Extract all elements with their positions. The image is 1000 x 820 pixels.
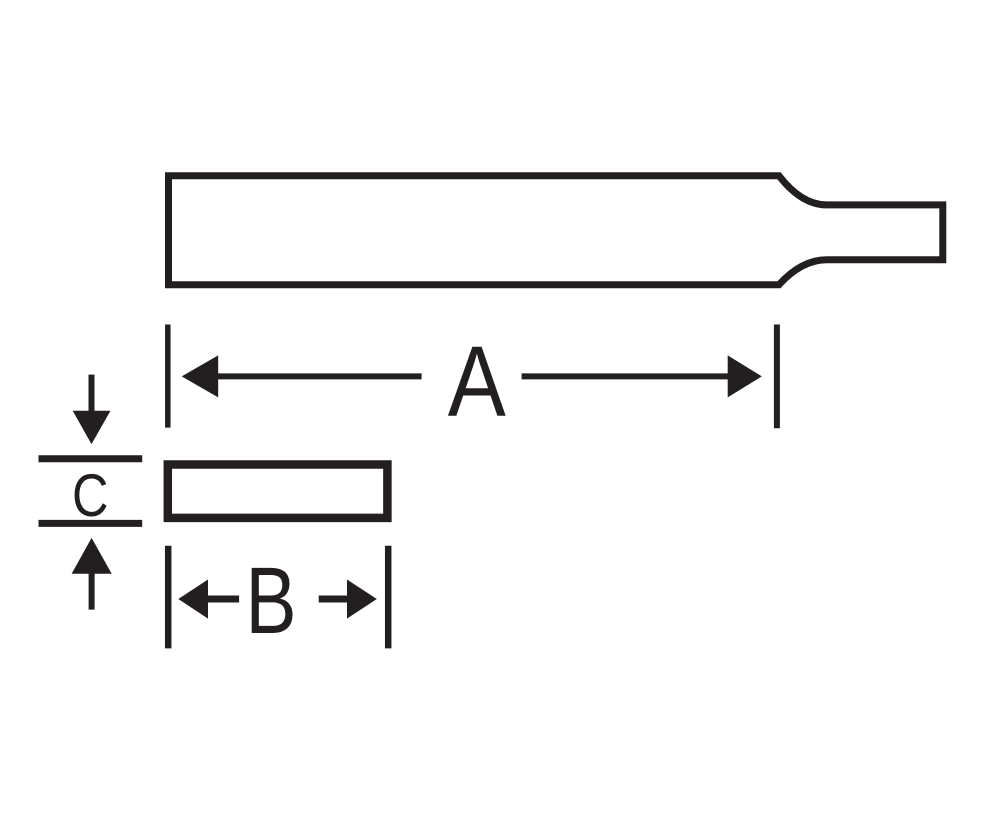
svg-text:C: C xyxy=(72,462,108,529)
dimension B right shaft xyxy=(319,596,350,603)
dimension A left shaft xyxy=(214,373,422,379)
dimension C down arrow shaft xyxy=(89,375,95,415)
dimension B left shaft xyxy=(204,596,239,603)
dimension B left extension line xyxy=(165,546,172,649)
dimension B right extension line xyxy=(385,546,392,649)
dimension B left arrowhead xyxy=(178,580,208,619)
dimension A right arrowhead xyxy=(728,355,762,397)
dimension C up arrowhead xyxy=(72,538,112,574)
svg-text:A: A xyxy=(448,325,507,437)
dimension A left extension line xyxy=(165,325,171,428)
file body outline (side profile with tang) xyxy=(169,176,943,285)
cross-section rectangle xyxy=(168,465,388,518)
svg-text:B: B xyxy=(245,548,296,653)
dimension B right arrowhead xyxy=(347,580,377,619)
dimension A right extension line xyxy=(774,325,780,429)
dimension C bottom line xyxy=(39,520,143,527)
dimension C down arrowhead xyxy=(73,411,111,444)
dimension A right shaft xyxy=(522,373,731,379)
dimension C up arrow shaft xyxy=(89,570,95,610)
dimension A left arrowhead xyxy=(182,355,219,397)
dimension C top line xyxy=(39,455,143,462)
